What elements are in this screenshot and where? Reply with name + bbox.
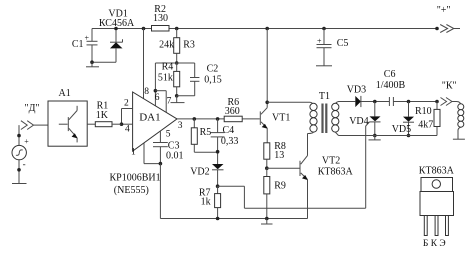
svg-text:VD4: VD4 [349,116,368,127]
node VD5 top [407,100,411,104]
node R3/R4/C2 [175,61,179,65]
svg-text:R3: R3 [183,40,195,51]
wire pin 4 [122,123,133,125]
resistor R3 [159,29,195,64]
resistor R2 [152,4,170,31]
node VD1 top rail [114,27,118,31]
node R5 [193,117,197,121]
transformer T1 [308,91,339,136]
resistor R5 [191,119,217,152]
svg-text:R10: R10 [415,106,432,117]
svg-text:360: 360 [225,106,240,117]
wire node to pin6 branch [155,62,194,64]
svg-text:4: 4 [125,125,130,135]
node 6/7 tie [154,89,158,93]
node VD4 top [373,100,377,104]
wire input drop [18,125,20,183]
svg-text:130: 130 [153,13,168,24]
block A1 [48,88,87,146]
resistor R6 [224,97,260,122]
node C5 rail [322,27,326,31]
op-amp style timer DA1 triangle [133,92,177,151]
ground under VD4 [369,136,381,140]
node R9 bus [265,217,269,221]
svg-text:1/400В: 1/400В [376,80,406,91]
svg-text:"+": "+" [437,5,451,16]
svg-text:R5: R5 [200,127,212,138]
node R10/K connector [435,100,439,104]
ground under coil [453,138,465,140]
svg-text:24k: 24k [159,40,174,51]
resistor R4 [158,62,180,96]
wire feedback VD2 node to output network [218,122,370,208]
capacitor C1 [72,29,98,63]
node plus connector [435,27,439,31]
node pin8 rail [142,27,146,31]
capacitor C6 [376,69,437,106]
svg-text:6: 6 [155,93,160,103]
node R8/R9/VT2 base [265,166,269,170]
svg-text:Б К Э: Б К Э [423,239,446,249]
wire pin 6 [154,63,156,106]
wire to T1 primary top [267,101,310,103]
wire pin 5 [159,131,161,142]
wire down to ground bus [160,164,307,219]
wire top supply rail [92,28,437,30]
diode VD5 [392,102,414,136]
resistor R10 [415,102,440,136]
svg-text:8: 8 [144,87,149,97]
node C1/VD1 [90,60,94,64]
connector chevrons input [21,121,48,130]
svg-text:1: 1 [131,148,136,158]
node C4 [216,117,220,121]
svg-text:КТ863А: КТ863А [318,167,354,178]
svg-text:VD5: VD5 [392,124,411,135]
svg-text:C6: C6 [384,69,396,80]
AC source G1 [12,137,29,169]
svg-text:C1: C1 [72,39,84,50]
svg-text:0.01: 0.01 [166,151,184,162]
diode VD4 [349,102,380,136]
node C4/R5 [216,150,220,154]
diode VD3 [347,85,366,108]
transistor inside A1 [59,106,78,143]
svg-text:+: + [85,34,90,43]
svg-text:+: + [24,137,29,146]
svg-text:VT2: VT2 [322,156,340,167]
node source bottom [17,168,21,172]
resistor R1 [87,101,121,127]
svg-text:"Д": "Д" [25,103,40,114]
svg-text:1k: 1k [201,197,211,208]
diode VD2 [190,164,223,186]
svg-text:R4: R4 [162,62,174,73]
wire pin 1 [144,143,160,164]
wire pin 8 [143,29,145,99]
resistor R9 [264,168,286,218]
wire pin 2 [122,109,133,125]
node VD4 bottom [373,134,377,138]
wire output bottom rail [339,135,438,137]
svg-text:3: 3 [178,121,183,131]
svg-text:(NE555): (NE555) [114,185,149,196]
ground bar under C5 [316,65,332,67]
svg-text:КР1006ВИ1: КР1006ВИ1 [110,173,161,184]
svg-text:4k7: 4k7 [418,120,433,131]
ground under R4 [171,96,185,103]
node source top [17,134,21,138]
inductor ignition coil [457,102,464,140]
connector chevrons K [441,98,457,106]
svg-text:13: 13 [274,150,284,161]
capacitor C5 [317,29,349,66]
wire secondary top to VD3 [339,101,356,103]
wire VT2 emitter to ground bus [307,180,309,219]
svg-text:C4: C4 [223,125,235,136]
resistor R7 [199,186,221,218]
node VT1 collector / T1 [265,101,269,105]
svg-text:0,33: 0,33 [221,136,239,147]
resistor R8 [264,141,286,168]
node R4 bottom [175,94,179,98]
wire VD3 to C6 [361,101,390,103]
wire VT1 collector to rail [266,29,268,108]
svg-text:T1: T1 [319,91,330,102]
svg-text:C2: C2 [207,64,219,75]
wire to VT2 base [267,167,300,169]
package drawing KT863A [419,166,455,250]
node VD5 bottom [407,134,411,138]
node R1 pins 2-4 [120,122,124,126]
svg-text:5: 5 [166,130,171,140]
node VD2/R7 [216,184,220,188]
wire VT2 collector to T1 primary bottom [307,134,309,156]
ground under source [12,183,27,185]
wire pin 3 output [177,118,224,120]
svg-text:2: 2 [124,99,129,109]
wire R4 bottom to C2 [177,95,195,97]
svg-text:VD3: VD3 [347,85,366,96]
svg-text:VD2: VD2 [190,167,209,178]
svg-text:C5: C5 [337,38,349,49]
capacitor C4 [211,119,239,164]
svg-text:R9: R9 [274,181,286,192]
svg-text:"К": "К" [442,81,457,92]
capacitor C3 [153,141,184,164]
transistor VT2 [300,156,353,181]
wire pin 7 jog [155,91,166,113]
node R7 bottom bus [216,217,220,221]
svg-text:7: 7 [167,97,172,107]
node C3/pin1 [159,162,163,166]
svg-text:0,15: 0,15 [204,75,222,86]
capacitor C2 [190,63,222,96]
svg-text:КТ863А: КТ863А [419,166,455,177]
transistor VT1 [260,108,290,129]
connector chevrons plus [440,25,460,33]
svg-text:-: - [23,159,26,169]
ground under C1 [86,62,99,67]
wire VD1 to C1 bottom [92,61,116,63]
ground under R9 [261,219,273,225]
zener diode VD1 KC456A [99,9,135,63]
wire VT1 emitter to R8 [266,128,268,143]
svg-text:DA1: DA1 [139,112,160,124]
svg-text:VT1: VT1 [272,113,290,124]
svg-text:+: + [317,37,322,46]
svg-text:1K: 1K [96,110,109,121]
node VT1 collector rail [265,27,269,31]
node R3 rail [175,27,179,31]
svg-text:A1: A1 [59,88,71,99]
svg-text:51k: 51k [158,73,173,84]
